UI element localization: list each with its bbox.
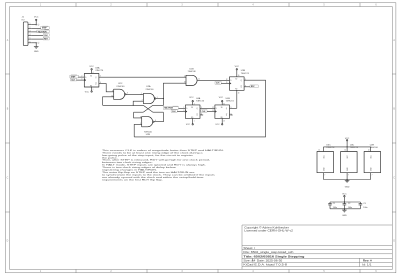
svg-text:U2B: U2B bbox=[146, 134, 151, 136]
svg-text:13: 13 bbox=[223, 121, 225, 123]
global label RDY bbox=[43, 37, 49, 40]
wire U3A.Q long to AND input bbox=[99, 76, 186, 78]
U4A inner pin names bbox=[186, 108, 198, 117]
U2C pin numbers bbox=[111, 90, 128, 97]
flip-flop U3B 74HC74 bbox=[230, 77, 245, 91]
svg-text:7: 7 bbox=[325, 175, 326, 177]
wire GND rail bbox=[324, 179, 371, 181]
junction bbox=[36, 42, 37, 43]
svg-text:I/O: I/O bbox=[22, 19, 25, 21]
svg-text:GND: GND bbox=[342, 215, 347, 217]
pin numbers bbox=[30, 23, 31, 43]
wire pin2 bbox=[32, 27, 41, 29]
svg-text:74HC00: 74HC00 bbox=[116, 86, 125, 88]
svg-text:HALT/RUN: HALT/RUN bbox=[164, 107, 174, 110]
and U1B 74HC08 bbox=[186, 75, 197, 85]
svg-text:VCC: VCC bbox=[215, 124, 220, 126]
power VCC above U4A bbox=[192, 102, 194, 105]
svg-text:D: D bbox=[7, 241, 9, 243]
svg-text:1: 1 bbox=[194, 121, 195, 123]
svg-text:U3B: U3B bbox=[241, 70, 246, 72]
column ticks top bbox=[76, 3, 360, 7]
wire U2C.out to U2A.in1 bbox=[126, 93, 143, 95]
wire CLK to U4A bbox=[177, 111, 185, 113]
row ticks right bbox=[392, 74, 396, 212]
svg-text:B: B bbox=[393, 109, 395, 111]
J1 pin 5 bbox=[28, 38, 32, 40]
svg-text:74HC08: 74HC08 bbox=[187, 71, 196, 73]
size/date/rev row bbox=[243, 259, 255, 262]
svg-text:CLK: CLK bbox=[216, 83, 220, 85]
svg-text:1: 1 bbox=[93, 89, 94, 91]
U3C top pin bbox=[323, 147, 325, 152]
U3A inner pin names bbox=[85, 77, 97, 86]
svg-text:U2C: U2C bbox=[118, 83, 123, 85]
svg-text:D: D bbox=[85, 77, 87, 79]
svg-text:Q: Q bbox=[196, 115, 198, 117]
flip-flop U4A 74HC74 bbox=[185, 105, 200, 119]
junction bbox=[344, 208, 345, 209]
svg-text:VCC: VCC bbox=[323, 154, 325, 158]
row ticks left bbox=[5, 74, 9, 212]
U4B inner pin names bbox=[216, 108, 228, 117]
svg-text:U4C: U4C bbox=[350, 144, 355, 146]
clock triangle bbox=[84, 79, 85, 81]
svg-text:VCC: VCC bbox=[186, 124, 191, 126]
power VCC below U4A (clear tied high) bbox=[192, 118, 194, 123]
svg-text:VCC: VCC bbox=[347, 154, 349, 158]
svg-text:GND: GND bbox=[34, 51, 39, 53]
wire U3B reset from U4B.Q bbox=[236, 90, 238, 108]
svg-text:U3A: U3A bbox=[95, 67, 100, 70]
wire left short horizontal bbox=[134, 111, 144, 113]
svg-text:D: D bbox=[230, 80, 232, 82]
svg-text:D: D bbox=[216, 108, 218, 110]
svg-text:GND: GND bbox=[345, 187, 350, 189]
svg-text:RDY: RDY bbox=[44, 39, 49, 41]
svg-text:C: C bbox=[393, 178, 395, 180]
global label CLK bbox=[171, 110, 177, 113]
svg-text:74HC74: 74HC74 bbox=[326, 147, 335, 149]
svg-text:Q: Q bbox=[95, 83, 97, 85]
power VCC below U3A (preset tied high) bbox=[91, 87, 93, 91]
junction U2A out bbox=[163, 98, 164, 99]
U3A pin numbers bbox=[81, 72, 101, 91]
ground bbox=[34, 43, 39, 49]
svg-text:C: C bbox=[7, 178, 9, 180]
svg-text:CLK: CLK bbox=[44, 35, 48, 37]
svg-text:SD: SD bbox=[90, 75, 92, 77]
svg-text:Title: 6502/65816 Single Stepp: Title: 6502/65816 Single Stepping bbox=[243, 255, 304, 259]
no-connect x bbox=[202, 114, 203, 115]
wire U4A.Q to U4B.D bbox=[200, 107, 215, 109]
flip-flop U4B 74HC74 bbox=[215, 105, 230, 119]
file row bbox=[243, 251, 293, 254]
svg-text:HALT/RUN: HALT/RUN bbox=[38, 30, 48, 33]
svg-text:VCC: VCC bbox=[34, 17, 39, 19]
wire HALT/RUN to D bbox=[179, 107, 186, 109]
svg-text:Q: Q bbox=[226, 108, 228, 110]
svg-text:74HC74: 74HC74 bbox=[350, 147, 359, 149]
wire feedback into U2B.in2 bbox=[134, 124, 142, 136]
svg-text:Size: A4: Size: A4 bbox=[243, 259, 255, 262]
U4B pin numbers bbox=[212, 103, 231, 122]
junction bbox=[344, 201, 345, 202]
junction latch bbox=[133, 105, 134, 106]
capacitor C2 bbox=[343, 202, 347, 209]
svg-text:GND: GND bbox=[347, 167, 349, 171]
power VCC above U3A bbox=[91, 70, 93, 74]
clock triangle bbox=[215, 111, 216, 113]
sheet row bbox=[243, 246, 255, 249]
svg-text:VCC: VCC bbox=[219, 97, 224, 99]
global label CLK bbox=[43, 34, 49, 37]
U2A pin numbers bbox=[142, 93, 158, 102]
junction bbox=[36, 24, 37, 25]
wire U4B.Q up to U3B reset bbox=[230, 107, 237, 109]
wire into U2C.in2 bbox=[103, 97, 114, 106]
svg-text:Licensed under CERN-OHL-W v2: Licensed under CERN-OHL-W v2 bbox=[244, 229, 293, 232]
J1 pin 6 bbox=[28, 42, 32, 44]
wire to AND.in2 bbox=[163, 83, 186, 98]
connector J1 bbox=[23, 22, 28, 46]
global label CLK bbox=[215, 81, 221, 84]
svg-text:5: 5 bbox=[323, 5, 325, 7]
flip-flop U3A 74HC74 bbox=[84, 74, 99, 88]
svg-text:U4A: U4A bbox=[196, 97, 201, 100]
wire U3B.Qbar to RDY bbox=[244, 86, 250, 88]
U1B pin numbers bbox=[184, 76, 200, 84]
wire U1B.out to U3B.D bbox=[197, 79, 229, 81]
global label STEP bbox=[70, 75, 79, 78]
wire diagonal A bbox=[143, 105, 163, 112]
clock triangle bbox=[185, 111, 186, 113]
svg-text:GND: GND bbox=[323, 167, 325, 171]
svg-text:U2E: U2E bbox=[370, 144, 375, 146]
junction bbox=[347, 179, 348, 180]
svg-text:74HC74: 74HC74 bbox=[95, 70, 104, 72]
svg-text:2: 2 bbox=[110, 5, 112, 7]
svg-text:74HC74: 74HC74 bbox=[241, 73, 250, 75]
svg-text:10: 10 bbox=[238, 75, 240, 77]
svg-text:VCC: VCC bbox=[189, 97, 194, 99]
wire pin4 bbox=[32, 35, 43, 37]
svg-text:1: 1 bbox=[40, 5, 42, 7]
U4C bottom pin bbox=[346, 173, 348, 180]
svg-text:KiCad E.D.A. kicad 7.0.5-8: KiCad E.D.A. kicad 7.0.5-8 bbox=[243, 263, 287, 266]
svg-text:14: 14 bbox=[318, 150, 320, 152]
svg-text:D: D bbox=[393, 241, 395, 243]
U3B inner pin names bbox=[230, 80, 242, 89]
wire cap bottom rail bbox=[330, 208, 360, 210]
nand U2C 74HC00 bbox=[114, 89, 125, 99]
svg-text:U2A: U2A bbox=[146, 85, 151, 88]
title row bbox=[243, 255, 304, 259]
J1 pin 4 bbox=[28, 35, 32, 37]
global label STEP bbox=[41, 26, 50, 29]
wire U4A.Qbar stub bbox=[200, 114, 202, 116]
U2B pin numbers bbox=[140, 116, 156, 125]
power VCC bbox=[346, 141, 348, 147]
svg-text:CLK: CLK bbox=[202, 111, 206, 113]
column ticks bottom bbox=[76, 269, 360, 272]
unconnected end marker bbox=[38, 24, 39, 25]
svg-text:Sheet: /: Sheet: / bbox=[243, 246, 255, 249]
svg-text:VCC: VCC bbox=[85, 91, 90, 93]
wire VCC rail bbox=[324, 146, 371, 148]
svg-text:C1: C1 bbox=[333, 203, 335, 205]
svg-text:SD: SD bbox=[191, 107, 193, 109]
wire diagonal B bbox=[143, 99, 163, 113]
junction bbox=[347, 146, 348, 147]
comment: copyright line bbox=[244, 226, 289, 229]
svg-text:A: A bbox=[393, 39, 395, 42]
svg-text:STEP: STEP bbox=[42, 28, 47, 30]
svg-text:requirements on the first RDY: requirements on the first RDY flip flop. bbox=[102, 178, 163, 181]
power unit U3C 74HC74 bbox=[317, 152, 334, 173]
title block outline bbox=[242, 225, 392, 269]
U2E bottom pin bbox=[370, 173, 372, 180]
wire latch top horizontal bbox=[103, 104, 144, 106]
J1 pin 2 bbox=[28, 27, 32, 29]
U3B pin numbers bbox=[226, 75, 246, 94]
svg-text:C3: C3 bbox=[363, 203, 365, 205]
svg-text:SD: SD bbox=[221, 107, 223, 109]
svg-text:VCC: VCC bbox=[89, 66, 94, 68]
svg-text:3: 3 bbox=[181, 5, 183, 7]
svg-text:13: 13 bbox=[238, 93, 240, 95]
ground bbox=[345, 180, 350, 183]
wire U4B.Qbar stub bbox=[230, 114, 232, 116]
power VCC bbox=[35, 21, 37, 25]
nand U2A 74HC00 bbox=[143, 93, 154, 103]
global label HALT/RUN bbox=[163, 106, 178, 109]
wire CLK to U4B bbox=[207, 111, 215, 113]
power VCC below U4B (clear tied high) bbox=[221, 118, 223, 123]
capacitor C3 bbox=[359, 202, 363, 209]
svg-text:Id: 1/1: Id: 1/1 bbox=[362, 263, 372, 266]
svg-text:A: A bbox=[7, 39, 9, 42]
svg-text:Rev: #: Rev: # bbox=[363, 259, 373, 262]
wire pin3 bbox=[32, 31, 37, 33]
wire U2A.out to junction bbox=[156, 98, 164, 100]
power unit U2E 74HC00 bbox=[364, 152, 381, 173]
svg-text:74HC00: 74HC00 bbox=[370, 147, 379, 149]
wire pin5 bbox=[32, 38, 43, 40]
wire U3A.Qbar down to U2C bbox=[99, 84, 114, 92]
svg-text:VCC: VCC bbox=[345, 138, 350, 140]
svg-text:Q: Q bbox=[95, 77, 97, 79]
svg-text:Q: Q bbox=[226, 115, 228, 117]
global label RDY bbox=[250, 85, 258, 88]
svg-text:J1: J1 bbox=[22, 17, 25, 19]
U3C bottom pin bbox=[323, 173, 325, 180]
capacitor C1 bbox=[328, 202, 332, 209]
J1 pin 1 bbox=[28, 24, 32, 26]
svg-text:C2: C2 bbox=[348, 203, 350, 205]
svg-text:6: 6 bbox=[375, 5, 377, 7]
wire to U2B.in1 bbox=[134, 112, 142, 118]
wire U2B out vertical bbox=[154, 112, 163, 122]
svg-text:74HC74: 74HC74 bbox=[226, 101, 235, 103]
svg-text:7: 7 bbox=[372, 175, 373, 177]
wire CLK bbox=[77, 79, 85, 81]
svg-text:Q: Q bbox=[241, 80, 243, 82]
svg-text:GND: GND bbox=[371, 167, 373, 171]
pin numbers bbox=[318, 150, 372, 177]
clock triangle bbox=[230, 83, 231, 85]
svg-text:100n: 100n bbox=[363, 207, 367, 209]
svg-text:13: 13 bbox=[184, 82, 186, 84]
svg-text:CLK: CLK bbox=[71, 80, 75, 82]
wire U2A.in2 from latch line bbox=[133, 101, 143, 105]
title block dividers bbox=[253, 258, 360, 266]
unconnected end marker bbox=[38, 42, 39, 43]
global label CLK bbox=[201, 110, 207, 113]
wire U3B.Q feedback loop bbox=[134, 80, 265, 137]
svg-text:VCC: VCC bbox=[371, 154, 373, 158]
svg-text:SD: SD bbox=[235, 79, 237, 81]
kicad/id row bbox=[243, 263, 287, 266]
svg-text:12: 12 bbox=[184, 76, 186, 78]
svg-text:U3C: U3C bbox=[326, 144, 331, 146]
svg-text:RDY: RDY bbox=[251, 86, 256, 88]
svg-text:74HC74: 74HC74 bbox=[196, 101, 205, 103]
svg-text:VCC: VCC bbox=[235, 66, 240, 68]
svg-text:B: B bbox=[7, 109, 9, 111]
wire CLK to U3B bbox=[221, 82, 229, 84]
power VCC above U4B bbox=[221, 102, 223, 105]
svg-text:CLK: CLK bbox=[172, 111, 176, 113]
power unit U4C 74HC74 bbox=[341, 152, 358, 173]
wire cap top rail bbox=[330, 201, 360, 203]
svg-text:7: 7 bbox=[348, 175, 349, 177]
J1 pin 3 bbox=[28, 31, 32, 33]
no-connect x bbox=[231, 114, 232, 115]
nand U2B 74HC00 bbox=[142, 117, 153, 127]
wire pin6 to GND bbox=[32, 42, 36, 44]
wire STEP to D bbox=[78, 76, 84, 78]
svg-text:Q: Q bbox=[241, 87, 243, 89]
svg-text:D: D bbox=[186, 108, 188, 110]
U2E top pin bbox=[370, 147, 372, 152]
svg-text:4: 4 bbox=[252, 5, 254, 7]
svg-text:Date: 2025-06-30: Date: 2025-06-30 bbox=[257, 259, 283, 262]
U4C top pin bbox=[346, 147, 348, 152]
global label HALT/RUN bbox=[37, 30, 49, 33]
svg-text:74HC00: 74HC00 bbox=[145, 89, 154, 91]
global label CLK bbox=[70, 78, 76, 81]
U4A pin numbers bbox=[183, 103, 202, 122]
comment: license line bbox=[244, 229, 293, 232]
svg-text:Q: Q bbox=[196, 108, 198, 110]
wire pin1 to VCC bbox=[32, 24, 36, 26]
ground bbox=[342, 209, 347, 212]
power VCC above U3B bbox=[236, 70, 238, 77]
svg-text:File: 6502_single_step.kicad_s: File: 6502_single_step.kicad_sch bbox=[243, 251, 293, 254]
svg-text:U4B: U4B bbox=[226, 98, 231, 100]
